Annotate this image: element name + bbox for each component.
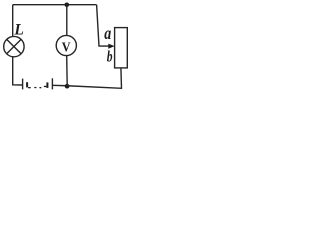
battery left cell: stub dash bbox=[28, 87, 31, 88]
background bbox=[0, 0, 131, 97]
wire lamp bottom to bottom-left corner bbox=[13, 57, 23, 85]
wire bottom from battery to rheostat riser bbox=[52, 84, 67, 86]
svg-text:V: V bbox=[62, 40, 71, 55]
wire left vertical (top corner to lamp top) bbox=[12, 5, 14, 37]
node junction bottom bbox=[65, 84, 70, 89]
node junction top bbox=[65, 3, 70, 8]
battery right cell: long plate bbox=[51, 78, 53, 89]
voltmeter V (circle body) bbox=[56, 35, 76, 55]
lamp L (circle with X) bbox=[4, 36, 24, 56]
wire top horizontal bbox=[13, 4, 97, 6]
wire bottom right and rheostat bottom riser bbox=[67, 68, 121, 88]
rheostat R body bbox=[115, 28, 128, 68]
battery left cell: short plate bbox=[26, 82, 28, 87]
slider arrowhead bbox=[108, 44, 114, 49]
wire right vertical with slider arm bbox=[97, 5, 109, 46]
battery ellipsis dots bbox=[34, 87, 41, 89]
battery right cell: stub dash bbox=[44, 86, 47, 87]
svg-text:b: b bbox=[107, 48, 113, 65]
wire voltmeter top branch bbox=[66, 5, 68, 36]
wire voltmeter bottom branch bbox=[66, 56, 69, 86]
battery left cell: long plate bbox=[22, 79, 24, 90]
svg-text:L: L bbox=[13, 21, 23, 38]
svg-text:a: a bbox=[104, 23, 111, 43]
battery right cell: short plate bbox=[46, 82, 48, 88]
